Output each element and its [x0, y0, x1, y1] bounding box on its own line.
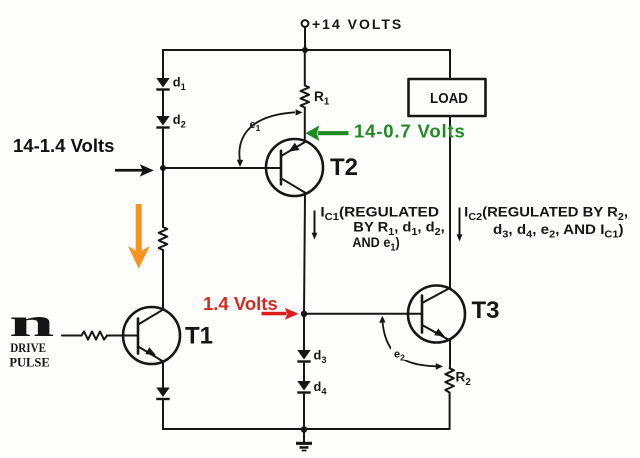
- svg-text:d1: d1: [173, 75, 186, 93]
- svg-text:T1: T1: [185, 323, 213, 350]
- svg-text:n: n: [9, 301, 54, 345]
- svg-text:d4: d4: [314, 379, 328, 397]
- svg-text:14-1.4 Volts: 14-1.4 Volts: [13, 135, 114, 156]
- svg-text:14-0.7 Volts: 14-0.7 Volts: [354, 121, 466, 142]
- svg-text:d2: d2: [173, 112, 186, 130]
- svg-text:R1: R1: [314, 89, 330, 108]
- svg-text:R2: R2: [456, 370, 472, 389]
- svg-text:LOAD: LOAD: [430, 91, 468, 107]
- svg-text:d3, d4, e2, AND IC1): d3, d4, e2, AND IC1): [493, 222, 624, 241]
- svg-text:DRIVE: DRIVE: [10, 341, 46, 355]
- svg-text:d3: d3: [314, 348, 327, 366]
- svg-text:T2: T2: [330, 154, 358, 181]
- svg-text:+14 VOLTS: +14 VOLTS: [312, 16, 403, 32]
- svg-text:1.4 Volts: 1.4 Volts: [203, 293, 278, 314]
- svg-text:PULSE: PULSE: [9, 356, 49, 370]
- svg-text:T3: T3: [472, 297, 500, 324]
- svg-text:IC2(REGULATED BY R2,: IC2(REGULATED BY R2,: [464, 204, 628, 223]
